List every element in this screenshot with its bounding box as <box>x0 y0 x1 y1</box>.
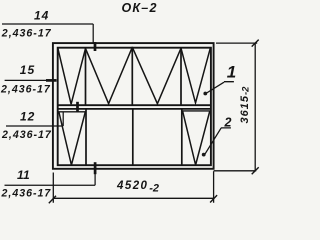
svg-text:ОК–2: ОК–2 <box>122 1 158 15</box>
svg-text:14: 14 <box>34 8 49 22</box>
svg-text:2,436-17: 2,436-17 <box>1 188 52 200</box>
svg-text:2,436-17: 2,436-17 <box>1 129 52 141</box>
svg-text:12: 12 <box>20 109 35 123</box>
svg-text:3615-2: 3615-2 <box>239 86 252 124</box>
svg-text:2,436-17: 2,436-17 <box>0 83 51 95</box>
svg-text:15: 15 <box>20 63 35 77</box>
svg-text:1: 1 <box>227 63 236 82</box>
svg-text:11: 11 <box>17 168 30 182</box>
svg-text:2: 2 <box>224 116 232 130</box>
svg-text:2,436-17: 2,436-17 <box>1 28 52 40</box>
